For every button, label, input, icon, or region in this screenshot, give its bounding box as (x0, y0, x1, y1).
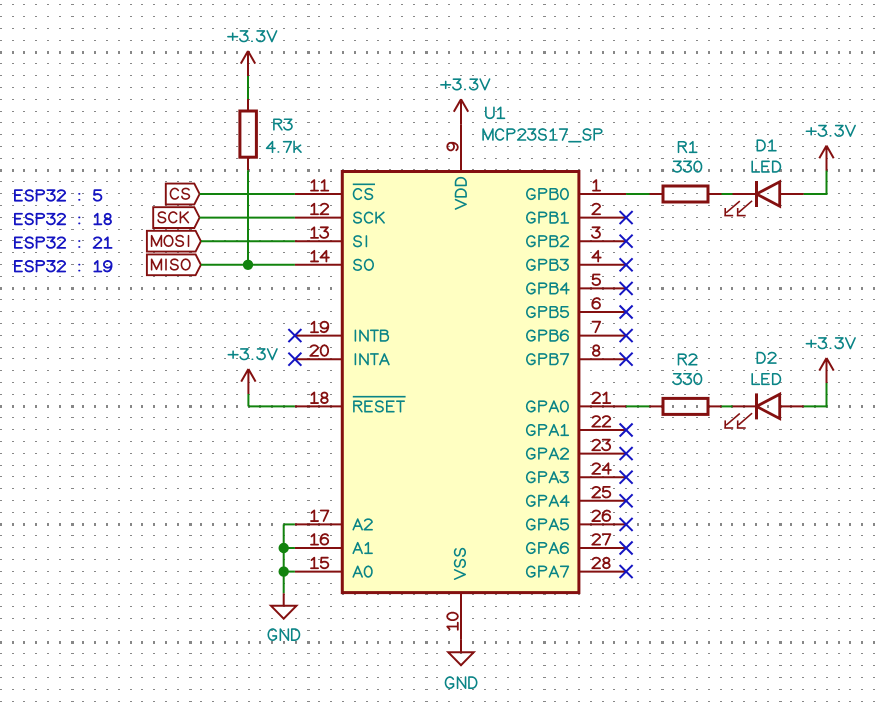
D1 reference label (757, 140, 776, 151)
pin name GPA2 (527, 448, 569, 459)
pin name GPB4 (527, 283, 569, 294)
R3 reference label (274, 119, 292, 130)
global label MOSI (147, 231, 201, 252)
wire R2 to D2 (722, 405, 733, 407)
no-connect X pin 20 (288, 353, 301, 366)
pin 3 GPB2 stub (right) (579, 240, 626, 242)
pin number 23 (592, 440, 610, 451)
pin name RESET (354, 401, 404, 412)
ground symbol at VSS (448, 640, 473, 665)
note text ESP32 : 19 (15, 261, 112, 272)
junction at A1 (279, 543, 289, 553)
pin name GPB6 (527, 330, 568, 341)
wire D1 to power corner (804, 193, 827, 195)
D2 reference label (757, 353, 776, 364)
R3 value 4.7k (267, 141, 301, 152)
pin 11 CS stub (left) (295, 193, 342, 195)
pin 7 GPB6 stub (right) (579, 335, 626, 337)
GND net label at VSS (445, 677, 476, 688)
resistor R1 (650, 193, 664, 195)
R1 reference label (679, 142, 697, 153)
pin name A2 (353, 519, 372, 530)
wire +3.3V down to RESET corner (247, 394, 249, 406)
pin name GPB3 (527, 260, 568, 271)
no-connect X pin 5 (620, 282, 633, 295)
wire SCK to pin (200, 217, 295, 219)
pin number 25 (592, 487, 610, 498)
pin number 12 (311, 204, 328, 215)
pin 4 GPB3 stub (right) (579, 264, 626, 266)
power +3.3V at D1 (819, 146, 833, 171)
power +3.3V at RESET (241, 369, 255, 394)
junction on MISO wire (243, 260, 253, 270)
pin name GPA6 (527, 543, 568, 554)
pin 16 A1 stub (left) (295, 547, 342, 549)
pin name GPA1 (527, 425, 569, 436)
resistor R3 (247, 99, 249, 111)
pin 24 GPA3 stub (right) (579, 476, 626, 478)
pin number 24 (592, 463, 611, 474)
LED D2 (724, 393, 803, 428)
pin number 4 (592, 251, 600, 262)
pin name SI (354, 236, 367, 247)
pin number 20 (310, 345, 328, 356)
pin number 3 (592, 227, 600, 238)
pin number 13 (311, 227, 328, 238)
pin name A0 (353, 566, 372, 577)
pin 21 GPA0 stub (right) (579, 405, 626, 407)
no-connect X pin 24 (620, 471, 633, 484)
wire A1 horizontal (284, 547, 295, 549)
pin name GPA3 (527, 472, 569, 483)
no-connect X pin 8 (620, 353, 633, 366)
pin name INTB (355, 330, 388, 341)
pin name INTA (355, 354, 389, 365)
resistor R2 (650, 405, 664, 407)
pin 14 SO stub (left) (295, 264, 342, 266)
GND net label at A-bus (268, 629, 299, 640)
pin name VDD (rotated) (456, 178, 467, 209)
pin 20 INTA stub (left) (295, 358, 342, 360)
wire MISO to pin (201, 264, 295, 266)
pin number 28 (592, 558, 609, 569)
no-connect X pin 6 (620, 306, 633, 319)
wire +3.3V to R3 (247, 76, 249, 100)
pin 17 A2 stub (left) (295, 523, 342, 525)
R2 reference label (679, 354, 697, 365)
pin number 18 (311, 392, 328, 403)
pin 9 VDD stub (top) (460, 124, 462, 172)
wire pin to R2 (626, 405, 649, 407)
pin name GPA0 (527, 401, 568, 412)
R2 value 330 (673, 374, 701, 385)
pin name SCK (354, 212, 384, 223)
no-connect X pin 22 (620, 424, 633, 437)
global label CS (166, 184, 200, 205)
pin 13 SI stub (left) (295, 240, 342, 242)
pin name GPA5 (527, 519, 569, 530)
note text ESP32 : 5 (15, 190, 102, 201)
no-connect X pin 4 (620, 258, 633, 271)
pin number 17 (311, 510, 328, 521)
pin number 2 (592, 204, 600, 215)
R1 value 330 (673, 161, 701, 172)
pin 5 GPB4 stub (right) (579, 287, 626, 289)
pin 28 GPA7 stub (right) (579, 571, 626, 573)
pin 8 GPB7 stub (right) (579, 358, 626, 360)
pin number 9 (rotated) (447, 143, 458, 151)
pin 2 GPB1 stub (right) (579, 217, 626, 219)
pin 18 RESET stub (left) (295, 405, 342, 407)
pin 12 SCK stub (left) (295, 217, 342, 219)
wire D2 to power corner (804, 405, 827, 407)
pin name GPA7 (527, 566, 569, 577)
pin number 16 (311, 534, 328, 545)
pin number 15 (311, 558, 328, 569)
wire A0 horizontal (284, 571, 295, 573)
pin name GPB2 (527, 236, 569, 247)
pin name GPA4 (527, 496, 569, 507)
pin number 1 (593, 180, 600, 191)
U1 value label MCP23S17_SP (483, 129, 602, 142)
no-connect X pin 28 (620, 565, 633, 578)
pin number 26 (592, 510, 610, 521)
pin 15 A0 stub (left) (295, 571, 342, 573)
pin number 21 (592, 392, 610, 403)
junction at A0 (279, 566, 289, 576)
wire A2 horizontal (284, 523, 295, 525)
pin name CS (354, 189, 373, 200)
pin number 14 (311, 251, 329, 262)
D2 value LED (752, 374, 780, 385)
pin number 19 (311, 322, 328, 333)
note text ESP32 : 18 (15, 214, 111, 225)
D1 value LED (752, 161, 780, 172)
pin name GPB7 (527, 354, 569, 365)
pin name SO (354, 259, 373, 270)
no-connect X pin 19 (288, 329, 301, 342)
pin 6 GPB5 stub (right) (579, 311, 626, 313)
wire R1 to D1 (722, 193, 733, 195)
ground symbol below A-bus (271, 593, 296, 618)
note text ESP32 : 21 (15, 237, 112, 248)
pin 27 GPA6 stub (right) (579, 547, 626, 549)
pin 10 VSS stub (bottom) (460, 592, 462, 640)
no-connect X pin 26 (620, 518, 633, 531)
pin 19 INTB stub (left) (295, 335, 342, 337)
pin number 5 (592, 274, 600, 285)
wire R3 down to MISO net (247, 170, 249, 264)
wire MOSI to pin (201, 240, 295, 242)
pin number 7 (593, 322, 601, 333)
pin number 27 (592, 534, 610, 545)
pin 22 GPA1 stub (right) (579, 429, 626, 431)
no-connect X pin 7 (620, 329, 633, 342)
no-connect X pin 27 (620, 542, 633, 555)
global label SCK (153, 207, 199, 228)
pin 23 GPA2 stub (right) (579, 453, 626, 455)
power +3.3V above R3 (241, 51, 255, 76)
LED D1 (724, 181, 803, 216)
wire pin to R1 (626, 193, 649, 195)
pin 25 GPA4 stub (right) (579, 500, 626, 502)
global label MISO (147, 254, 201, 275)
no-connect X pin 23 (620, 447, 633, 460)
pin name GPB1 (527, 212, 569, 223)
pin name GPB0 (527, 189, 568, 200)
wire CS to pin (200, 193, 295, 195)
wire corner to RESET pin (248, 405, 295, 407)
power +3.3V at VDD (454, 99, 468, 124)
pin number 11 (311, 180, 328, 191)
pin number 22 (592, 416, 610, 427)
pin number 8 (593, 345, 600, 356)
IC U1 MCP23S17_SP body (342, 172, 579, 593)
pin 1 GPB0 stub (right) (579, 193, 626, 195)
power +3.3V at D2 (819, 358, 833, 383)
pin number 10 (rotated) (447, 613, 458, 630)
no-connect X pin 25 (620, 494, 633, 507)
U1 reference label (486, 107, 505, 118)
wire vertical A-bus down to GND (283, 524, 285, 593)
pin name VSS (rotated) (455, 549, 466, 580)
pin name A1 (353, 543, 372, 554)
pin 26 GPA5 stub (right) (579, 523, 626, 525)
no-connect X pin 3 (620, 235, 633, 248)
pin name GPB5 (527, 307, 569, 318)
pin number 6 (592, 298, 600, 309)
no-connect X pin 2 (620, 211, 633, 224)
